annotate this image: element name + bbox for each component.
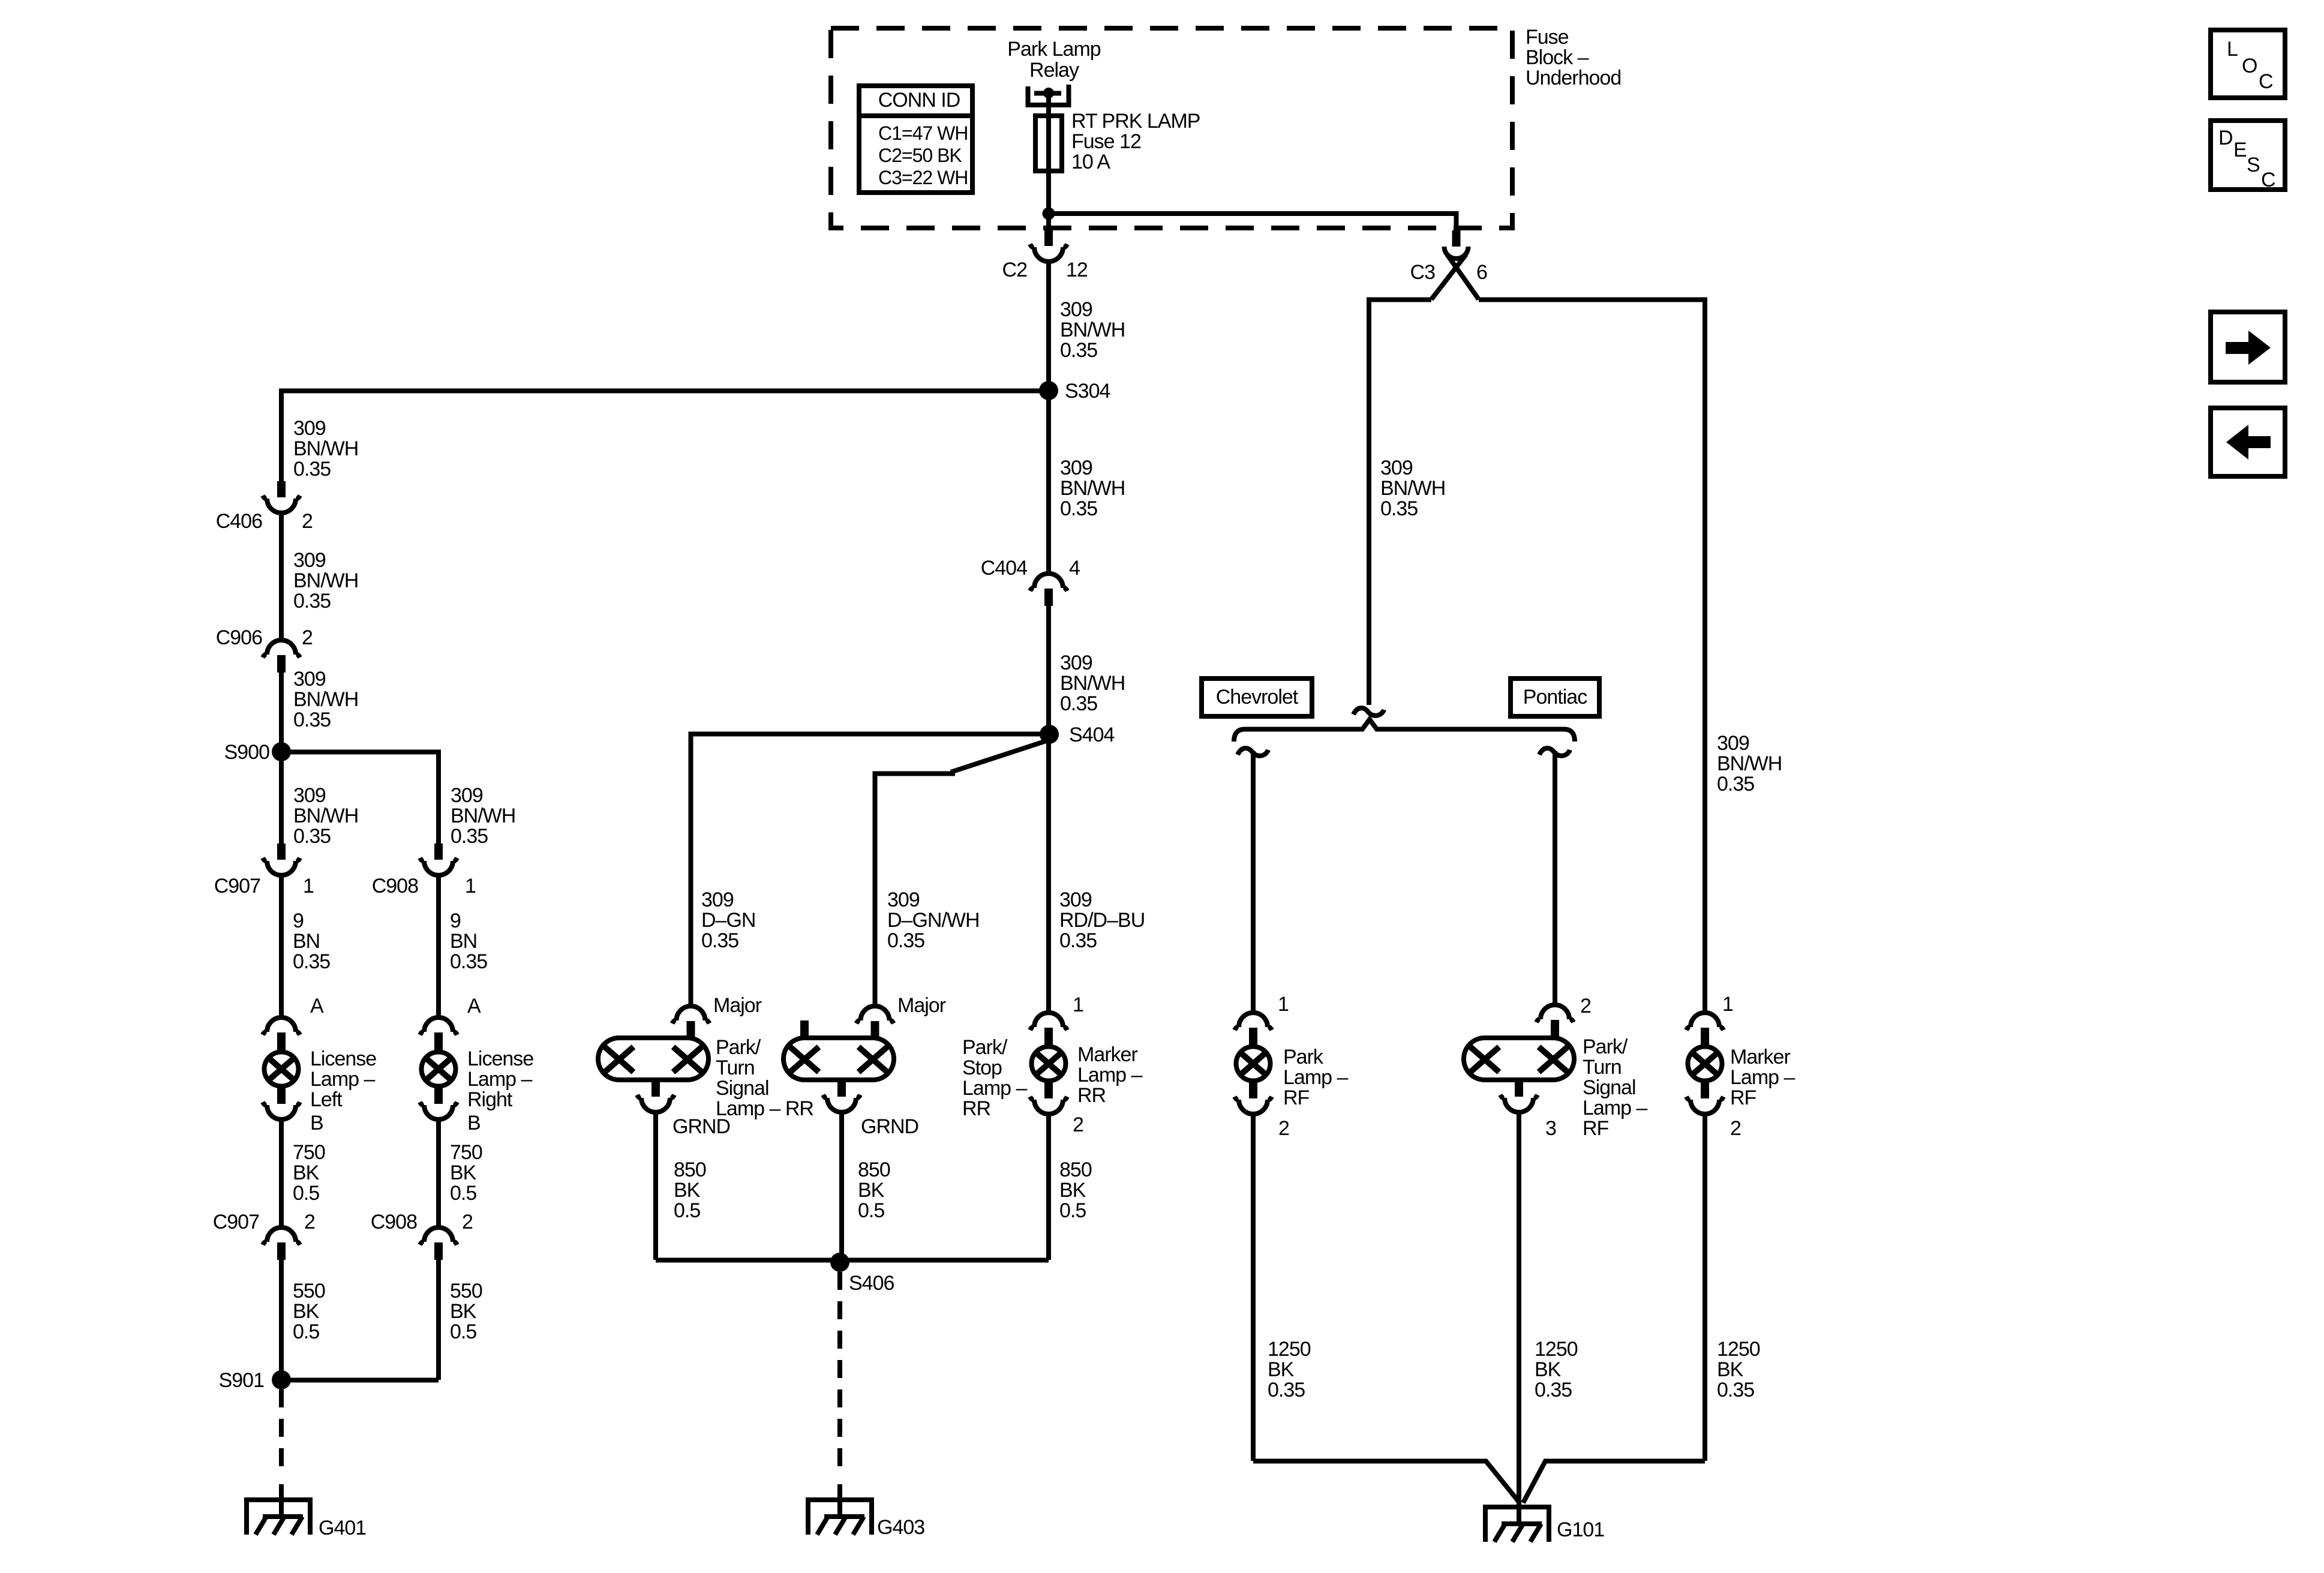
svg-text:B: B	[467, 1112, 481, 1134]
option hook top of Park Lamp RF wire	[1238, 748, 1268, 756]
svg-text:0.35: 0.35	[1268, 1379, 1305, 1401]
svg-text:G401: G401	[319, 1517, 366, 1539]
svg-text:D: D	[2218, 127, 2233, 149]
svg-text:BK: BK	[1059, 1179, 1086, 1202]
relay K contact symbol	[1028, 85, 1069, 105]
connector C404 pin 4	[1034, 574, 1063, 588]
wire S901 to G401 dashed	[279, 1389, 284, 1477]
wire C404 to S404	[1046, 606, 1051, 734]
wire S901 horizontal	[281, 1378, 439, 1383]
ground G101	[1485, 1507, 1549, 1542]
svg-text:Lamp –: Lamp –	[1583, 1097, 1647, 1119]
lamp Park/Stop Lamp - RR	[783, 1038, 894, 1080]
svg-text:Lamp –: Lamp –	[962, 1077, 1027, 1100]
svg-text:0.35: 0.35	[1380, 497, 1418, 520]
svg-text:0.35: 0.35	[450, 950, 487, 973]
svg-text:Chevrolet: Chevrolet	[1216, 686, 1299, 709]
svg-text:309: 309	[1717, 732, 1749, 755]
ground G401	[247, 1500, 310, 1535]
svg-text:2: 2	[1073, 1113, 1083, 1136]
svg-text:2: 2	[302, 626, 313, 649]
svg-text:309: 309	[1060, 298, 1092, 321]
svg-text:Left: Left	[310, 1088, 343, 1111]
svg-text:License: License	[467, 1047, 533, 1070]
wire Marker RR pin2 to S406 bus	[1046, 1114, 1051, 1260]
connector pin 2 at Park/Turn Signal Lamp RF	[1541, 1005, 1569, 1019]
svg-text:Signal: Signal	[1583, 1076, 1636, 1099]
DESC reference box	[2211, 121, 2285, 190]
splice S900	[272, 742, 291, 761]
ground G403	[808, 1500, 872, 1535]
svg-text:Park/: Park/	[716, 1036, 761, 1059]
LOC reference box	[2211, 30, 2285, 98]
connector C906 pin 2	[267, 640, 296, 655]
connector Major at Park/Stop Lamp RR	[861, 1006, 890, 1020]
svg-text:BK: BK	[1535, 1358, 1562, 1381]
svg-text:0.35: 0.35	[701, 929, 738, 952]
svg-text:License: License	[310, 1047, 376, 1070]
connector pin A License Lamp Left	[267, 1017, 296, 1032]
lamp Park/Turn Signal Lamp - RR	[598, 1038, 708, 1080]
svg-text:B: B	[310, 1112, 323, 1134]
svg-text:BK: BK	[293, 1300, 320, 1323]
svg-text:1: 1	[1073, 993, 1083, 1016]
svg-text:309: 309	[293, 549, 326, 572]
svg-text:G403: G403	[877, 1516, 924, 1539]
svg-text:309: 309	[293, 784, 326, 807]
svg-text:Underhood: Underhood	[1526, 67, 1621, 89]
wire S304 down to C404	[1046, 391, 1051, 574]
connector C406 pin 2	[277, 481, 286, 497]
svg-text:BK: BK	[1268, 1358, 1295, 1381]
connector pin 2 at Park Lamp RF	[1249, 1082, 1257, 1098]
svg-text:Signal: Signal	[716, 1077, 769, 1100]
svg-text:C406: C406	[216, 510, 262, 533]
svg-text:Major: Major	[713, 994, 762, 1017]
connector pin 1 at Marker Lamp RF	[1691, 1013, 1719, 1027]
svg-text:Block –: Block –	[1526, 46, 1589, 69]
splice S404	[1040, 725, 1059, 744]
svg-text:Stop: Stop	[962, 1056, 1002, 1079]
svg-text:309: 309	[1059, 888, 1092, 911]
svg-text:0.5: 0.5	[1059, 1199, 1086, 1222]
wire stub above G401	[279, 1484, 284, 1515]
svg-text:Turn: Turn	[1583, 1056, 1622, 1079]
svg-text:2: 2	[1730, 1117, 1741, 1140]
svg-text:2: 2	[1278, 1117, 1289, 1140]
connector pin 1 at Park Lamp RF	[1239, 1013, 1268, 1027]
svg-text:RR: RR	[1077, 1084, 1106, 1107]
svg-text:Right: Right	[467, 1088, 513, 1111]
svg-text:Lamp –: Lamp –	[1730, 1066, 1795, 1089]
svg-text:6: 6	[1476, 261, 1487, 284]
svg-text:E: E	[2233, 139, 2247, 161]
svg-text:309: 309	[701, 888, 734, 911]
svg-text:BN/WH: BN/WH	[1380, 477, 1445, 500]
svg-text:0.35: 0.35	[1059, 929, 1097, 952]
svg-text:309: 309	[1060, 652, 1092, 674]
svg-text:Park/: Park/	[1583, 1035, 1628, 1058]
svg-text:BK: BK	[450, 1300, 477, 1323]
connector GRND at Park/Turn Signal Lamp RR	[651, 1080, 660, 1097]
wire S404 to Park/Turn Signal Lamp RR	[691, 734, 1050, 1007]
svg-text:0.35: 0.35	[1060, 339, 1097, 362]
arrow back box	[2211, 408, 2285, 476]
svg-text:0.35: 0.35	[1717, 773, 1754, 795]
svg-text:BN/WH: BN/WH	[1060, 319, 1125, 341]
svg-text:A: A	[310, 995, 324, 1017]
lamp Marker Lamp - RR	[1032, 1047, 1066, 1081]
svg-text:BN/WH: BN/WH	[293, 688, 358, 711]
svg-text:D–GN: D–GN	[701, 909, 755, 932]
svg-text:750: 750	[450, 1141, 482, 1164]
connector pin B License Lamp Right	[434, 1088, 443, 1104]
svg-text:2: 2	[1580, 995, 1591, 1017]
svg-text:309: 309	[293, 417, 326, 440]
svg-text:850: 850	[858, 1158, 890, 1181]
svg-text:4: 4	[1069, 557, 1080, 580]
svg-text:BK: BK	[293, 1161, 320, 1184]
svg-text:1: 1	[1722, 993, 1733, 1016]
splice S406	[830, 1253, 849, 1272]
svg-text:C907: C907	[213, 1211, 259, 1233]
wire C908 to License Lamp Right	[436, 875, 441, 1017]
svg-text:Lamp – RR: Lamp – RR	[716, 1097, 813, 1120]
svg-text:2: 2	[302, 510, 313, 533]
option hook top of Pontiac wire	[1539, 748, 1570, 756]
svg-text:S404: S404	[1069, 724, 1114, 746]
svg-text:850: 850	[1059, 1158, 1092, 1181]
wire C907-2 to S901	[279, 1260, 284, 1380]
svg-text:0.35: 0.35	[293, 950, 330, 973]
svg-text:Lamp –: Lamp –	[310, 1068, 375, 1091]
connector Major at Park/Turn Signal Lamp RR	[677, 1006, 705, 1020]
svg-text:RF: RF	[1283, 1086, 1310, 1109]
svg-text:BK: BK	[450, 1161, 477, 1184]
svg-text:S304: S304	[1065, 380, 1110, 403]
svg-text:0.35: 0.35	[451, 825, 488, 848]
svg-text:Fuse 12: Fuse 12	[1071, 130, 1141, 153]
svg-text:Major: Major	[897, 994, 946, 1017]
svg-text:Turn: Turn	[716, 1056, 755, 1079]
svg-text:0.35: 0.35	[1060, 497, 1097, 520]
arrow next box	[2211, 312, 2285, 382]
svg-text:10 A: 10 A	[1071, 151, 1110, 173]
svg-text:RD/D–BU: RD/D–BU	[1059, 909, 1145, 932]
svg-text:550: 550	[450, 1280, 482, 1302]
wire C406 to C906	[279, 513, 284, 640]
wire C908-2 to S901 bus	[436, 1260, 441, 1380]
lamp License Lamp - Right	[422, 1052, 456, 1086]
svg-text:L: L	[2227, 38, 2238, 61]
svg-text:1250: 1250	[1268, 1338, 1311, 1361]
svg-text:C404: C404	[981, 557, 1027, 580]
svg-text:S900: S900	[224, 741, 269, 764]
connector C907 pin 1	[277, 843, 286, 860]
svg-text:Relay: Relay	[1029, 59, 1079, 82]
svg-text:BN/WH: BN/WH	[1717, 752, 1782, 775]
wire C2 to S304, 309 BN/WH	[1046, 262, 1051, 391]
svg-text:RR: RR	[962, 1097, 990, 1120]
svg-text:2: 2	[304, 1211, 315, 1233]
svg-text:0.5: 0.5	[450, 1320, 476, 1343]
wire C3 left branch to option brace	[1369, 300, 1431, 706]
lamp Marker Lamp - RF	[1688, 1047, 1722, 1081]
svg-text:1250: 1250	[1535, 1338, 1578, 1361]
svg-text:0.35: 0.35	[1060, 692, 1097, 715]
wire ground bus to S406	[656, 1258, 1049, 1263]
connector C908 pin 2	[424, 1227, 453, 1242]
connector C907 pin 2	[267, 1227, 296, 1242]
svg-text:BK: BK	[858, 1179, 885, 1202]
wire Pontiac branch down to Park/Turn Signal Lamp RF	[1553, 751, 1557, 1005]
svg-text:1: 1	[1278, 993, 1289, 1016]
splice S901	[272, 1370, 291, 1389]
svg-text:1: 1	[303, 875, 314, 897]
svg-text:Fuse: Fuse	[1526, 26, 1569, 49]
splice S304	[1039, 381, 1058, 400]
wire PT RF pin3 to G101	[1517, 1112, 1521, 1524]
svg-text:C: C	[2261, 169, 2275, 191]
connector C2 pin 12	[1044, 230, 1053, 246]
fuse F12 RT PRK LAMP 10A	[1035, 116, 1062, 171]
wire fuse to junction	[1046, 171, 1051, 214]
svg-text:D–GN/WH: D–GN/WH	[887, 909, 980, 932]
wire stub above G403	[837, 1484, 842, 1515]
svg-text:GRND: GRND	[672, 1115, 730, 1138]
wire C3 right branch to Marker Lamp RF	[1479, 300, 1705, 1013]
svg-text:0.5: 0.5	[858, 1199, 884, 1222]
svg-text:C908: C908	[372, 875, 418, 897]
svg-text:3: 3	[1545, 1117, 1556, 1140]
svg-text:9: 9	[293, 909, 304, 932]
wire S304 to left column	[281, 391, 1049, 482]
svg-text:G101: G101	[1557, 1518, 1604, 1541]
svg-text:0.35: 0.35	[887, 929, 924, 952]
option hook end of C3 left branch	[1353, 708, 1384, 716]
svg-text:BN: BN	[450, 930, 477, 953]
wire Park RF to ground join	[1253, 1461, 1520, 1504]
connector GRND at Park/Stop Lamp RR	[837, 1080, 846, 1097]
svg-text:0.35: 0.35	[1717, 1379, 1754, 1401]
wire C907 to License Lamp Left	[279, 875, 284, 1017]
svg-text:0.5: 0.5	[450, 1182, 476, 1205]
connector pin 2 at Marker Lamp RR	[1044, 1082, 1053, 1098]
wire Park/Turn GRND to S406 bus	[653, 1112, 658, 1260]
svg-text:BN/WH: BN/WH	[293, 569, 358, 592]
svg-text:BN/WH: BN/WH	[451, 804, 515, 827]
stub pin at Park/Stop Lamp RR left	[800, 1020, 809, 1038]
svg-text:9: 9	[450, 909, 461, 932]
lamp Park/Turn Signal Lamp - RF	[1464, 1038, 1574, 1080]
svg-text:S406: S406	[849, 1272, 894, 1295]
svg-text:0.35: 0.35	[293, 458, 331, 481]
lamp Park Lamp - RF	[1236, 1047, 1271, 1081]
lamp License Lamp - Left	[265, 1052, 299, 1086]
svg-text:550: 550	[293, 1280, 325, 1302]
svg-text:C: C	[2259, 70, 2273, 93]
svg-text:RT PRK LAMP: RT PRK LAMP	[1071, 110, 1200, 133]
svg-text:Park/: Park/	[962, 1036, 1008, 1059]
wire relay to fuse	[1046, 96, 1051, 118]
svg-text:A: A	[467, 995, 481, 1017]
svg-text:BN/WH: BN/WH	[1060, 672, 1125, 695]
svg-text:RF: RF	[1583, 1117, 1609, 1140]
wire junction to C3 drop	[1049, 214, 1457, 230]
svg-text:BN: BN	[293, 930, 320, 953]
wire License Right to C908-2	[436, 1119, 441, 1227]
wire Chevrolet branch down to Park Lamp RF	[1251, 751, 1256, 1013]
svg-text:BN/WH: BN/WH	[293, 804, 358, 827]
svg-text:C906: C906	[216, 626, 262, 649]
wire S404 to Park/Stop Lamp RR	[875, 741, 1047, 1006]
svg-text:0.35: 0.35	[293, 825, 331, 848]
connector pin A License Lamp Right	[424, 1017, 453, 1032]
svg-text:Marker: Marker	[1077, 1043, 1137, 1066]
svg-text:BK: BK	[674, 1179, 701, 1202]
svg-text:309: 309	[887, 888, 920, 911]
wire S900 branch to C908	[281, 752, 439, 844]
svg-text:BN/WH: BN/WH	[293, 437, 358, 460]
crossover wires from C3	[1431, 254, 1466, 299]
svg-text:C1=47 WH: C1=47 WH	[878, 122, 968, 144]
svg-text:Pontiac: Pontiac	[1523, 686, 1587, 709]
svg-text:850: 850	[674, 1158, 706, 1181]
wire S406 to G403 dashed	[837, 1272, 842, 1477]
option brace Chevrolet/Pontiac	[1234, 719, 1575, 742]
svg-text:Lamp –: Lamp –	[1077, 1064, 1142, 1086]
box Pontiac	[1511, 679, 1599, 716]
svg-text:309: 309	[293, 668, 326, 691]
connector pin 2 at Marker Lamp RF	[1701, 1082, 1709, 1098]
svg-text:0.5: 0.5	[293, 1182, 319, 1205]
svg-text:C908: C908	[371, 1211, 417, 1233]
connector C908 pin 1	[434, 843, 443, 860]
svg-text:Park Lamp: Park Lamp	[1007, 38, 1100, 61]
box Chevrolet	[1202, 679, 1312, 716]
svg-text:309: 309	[451, 784, 483, 807]
svg-text:1250: 1250	[1717, 1338, 1760, 1361]
svg-text:S: S	[2247, 154, 2260, 176]
wire Marker RF to ground join	[1523, 1461, 1705, 1503]
svg-text:C2: C2	[1002, 259, 1028, 281]
connector pin 1 at Marker Lamp RR	[1034, 1013, 1063, 1027]
svg-text:0.5: 0.5	[674, 1199, 700, 1222]
svg-text:BK: BK	[1717, 1358, 1744, 1381]
svg-text:750: 750	[293, 1141, 325, 1164]
wire S900 down to C907	[279, 752, 284, 843]
wire junction through box bottom	[1046, 214, 1051, 230]
wire S404 down to Marker Lamp RR	[1046, 734, 1051, 1013]
svg-text:12: 12	[1066, 259, 1088, 281]
CONN ID table	[859, 86, 972, 193]
junction dot below fuse	[1043, 208, 1055, 220]
connector C3 pin 6	[1452, 230, 1461, 247]
fuse block underhood dashed box	[831, 28, 1512, 228]
svg-text:309: 309	[1060, 457, 1092, 479]
svg-text:C2=50 BK: C2=50 BK	[878, 145, 962, 166]
svg-text:Marker: Marker	[1730, 1046, 1790, 1068]
svg-text:O: O	[2242, 55, 2257, 77]
svg-text:0.5: 0.5	[293, 1320, 319, 1343]
wire Marker RF pin2 to G101	[1703, 1114, 1707, 1461]
svg-text:RF: RF	[1730, 1086, 1756, 1109]
svg-text:0.35: 0.35	[1535, 1379, 1572, 1401]
svg-text:309: 309	[1380, 457, 1413, 479]
svg-text:0.35: 0.35	[293, 590, 331, 613]
wire Park RF pin2 to G101	[1251, 1114, 1256, 1461]
svg-text:C3: C3	[1410, 261, 1436, 284]
svg-text:C907: C907	[214, 875, 260, 897]
svg-text:Park: Park	[1283, 1046, 1324, 1068]
svg-text:C3=22 WH: C3=22 WH	[878, 167, 968, 188]
svg-text:Lamp –: Lamp –	[1283, 1066, 1348, 1089]
svg-text:BN/WH: BN/WH	[1060, 477, 1125, 500]
svg-text:Lamp –: Lamp –	[467, 1068, 532, 1091]
svg-text:S901: S901	[219, 1369, 264, 1392]
wire Park/Stop GRND to S406 bus	[839, 1112, 844, 1260]
wire License Left to C907-2	[279, 1119, 284, 1227]
svg-text:CONN ID: CONN ID	[878, 89, 960, 112]
svg-text:2: 2	[462, 1211, 473, 1233]
connector pin B License Lamp Left	[277, 1088, 286, 1104]
svg-text:GRND: GRND	[861, 1115, 918, 1138]
svg-text:0.35: 0.35	[293, 709, 331, 731]
svg-text:1: 1	[465, 875, 476, 897]
wire C906 to S900	[279, 673, 284, 752]
connector pin 3 at Park/Turn Signal Lamp RF	[1515, 1080, 1523, 1097]
